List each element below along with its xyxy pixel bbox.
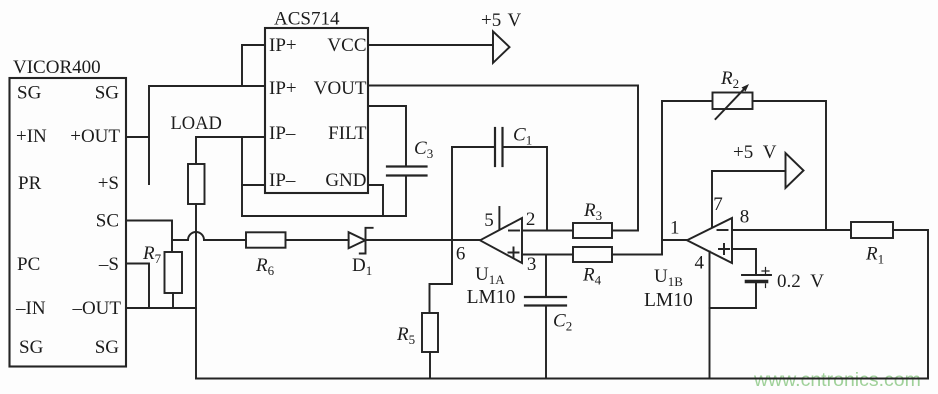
svg-text:SG: SG <box>95 82 120 103</box>
wire -OUT to ground drop <box>126 307 196 309</box>
resistor LOAD <box>188 164 205 204</box>
wire SC row with hop over LOAD wire <box>172 232 246 240</box>
wire IP+1 stub to IP+ net <box>242 45 265 86</box>
wire R4 right lead to U1B output node <box>612 254 662 256</box>
wire IP-4 stub <box>242 184 265 186</box>
R2 wiper arrow <box>716 87 747 119</box>
wire pin7 to +5V arrow <box>712 171 786 228</box>
svg-text:PC: PC <box>17 254 40 275</box>
svg-text:www.cntronics.com: www.cntronics.com <box>753 369 921 391</box>
svg-text:LOAD: LOAD <box>171 114 222 134</box>
resistor R4 <box>573 247 612 262</box>
svg-text:FILT: FILT <box>328 123 367 144</box>
svg-text:C2: C2 <box>553 311 572 334</box>
wire D1 to U1A output node <box>366 239 481 241</box>
svg-text:VOUT: VOUT <box>314 78 367 99</box>
svg-text:ACS714: ACS714 <box>274 9 340 30</box>
resistor R7 <box>165 252 183 293</box>
wire R2 right lead down to pin8 row <box>753 101 827 230</box>
svg-text:VICOR400: VICOR400 <box>13 57 101 78</box>
svg-text:SG: SG <box>95 337 120 358</box>
svg-text:4: 4 <box>695 253 705 274</box>
svg-text:C1: C1 <box>513 125 532 148</box>
wire R7 bottom lead <box>172 293 174 308</box>
module VICOR400 box <box>10 78 127 367</box>
wire IP-3 to LOAD top <box>196 137 265 164</box>
wire C2 bottom lead <box>545 306 547 379</box>
svg-text:1: 1 <box>670 217 680 238</box>
wire IP-/GND bottom tie <box>242 215 406 217</box>
svg-text:IP+: IP+ <box>269 35 297 56</box>
op-amp U1B <box>687 218 732 263</box>
capacitor C2 <box>525 297 566 306</box>
wire battery bottom loop to pin4 <box>710 283 757 308</box>
svg-text:7: 7 <box>713 194 723 215</box>
wire pin4 down to ground rail <box>709 252 711 379</box>
svg-text:SG: SG <box>17 82 42 103</box>
wire pin8 row to R1 <box>732 229 851 231</box>
svg-text:R4: R4 <box>582 265 602 288</box>
svg-text:SG: SG <box>19 337 44 358</box>
ground rail (bottom) <box>196 378 928 380</box>
svg-text:3: 3 <box>527 254 537 275</box>
svg-text:–IN: –IN <box>15 298 46 319</box>
wire FILT to C3 top <box>368 106 406 165</box>
wire LOAD bottom lead down to ground rail <box>195 204 197 379</box>
+5V power arrow (top) <box>493 31 510 63</box>
svg-text:LM10: LM10 <box>644 290 693 311</box>
wire R1 right lead down right edge <box>893 230 928 379</box>
wire R6 to D1 <box>286 239 349 241</box>
wire GND stub down <box>368 185 383 216</box>
wire C3 bottom lead <box>405 177 407 216</box>
svg-text:–OUT: –OUT <box>71 298 121 319</box>
svg-text:GND: GND <box>325 170 366 191</box>
pin 5 stub <box>498 207 500 230</box>
diode D1 (zener) <box>349 228 373 254</box>
resistor R1 <box>851 222 893 238</box>
op-amp U1B plus sign <box>719 244 729 254</box>
svg-text:+5 V: +5 V <box>733 142 777 163</box>
svg-text:–S: –S <box>98 254 119 275</box>
wire VCC to +5V arrow <box>368 44 493 46</box>
svg-text:2: 2 <box>526 209 536 230</box>
capacitor C1 <box>495 128 503 166</box>
resistor R5 <box>422 313 438 352</box>
svg-text:R1: R1 <box>865 244 884 267</box>
op-amp U1B minus sign <box>718 229 728 231</box>
svg-text:5: 5 <box>484 210 494 231</box>
wire SC to R7/R6 node <box>126 221 172 253</box>
wire +OUT stub <box>126 136 149 138</box>
op-amp U1A minus sign <box>509 230 519 232</box>
wire C1 right lead down to pin2 row <box>503 147 548 231</box>
svg-text:0.2 V: 0.2 V <box>777 271 824 292</box>
wire U1B + input to battery <box>732 249 756 275</box>
wire U1B output <box>662 239 687 241</box>
resistor R3 <box>573 223 612 238</box>
wire IP+2 to +OUT/+S vertical <box>149 86 265 184</box>
svg-text:R5: R5 <box>396 324 415 347</box>
svg-text:IP–: IP– <box>269 123 296 144</box>
wire R5 bottom lead <box>429 352 431 379</box>
battery 0.2 V <box>742 268 771 288</box>
svg-text:LM10: LM10 <box>467 287 516 308</box>
wire U1A output node vertical to C1 and down to R5 <box>430 147 453 313</box>
svg-text:+5 V: +5 V <box>481 10 522 31</box>
svg-text:IP+: IP+ <box>269 78 297 99</box>
svg-text:6: 6 <box>456 243 466 264</box>
svg-text:U1A: U1A <box>475 264 505 287</box>
op-amp U1A <box>480 218 522 263</box>
svg-text:U1B: U1B <box>654 266 683 289</box>
svg-text:D1: D1 <box>352 255 372 278</box>
+5V power arrow (right) <box>786 153 804 188</box>
wire pin3 row to R4 <box>522 254 573 256</box>
svg-text:R3: R3 <box>583 200 602 223</box>
wire -S down to -OUT <box>126 264 149 309</box>
wire U1B output node vertical (R2 left / pin1 / R4) <box>662 101 713 255</box>
wire VOUT long run and drop to R3 <box>368 86 638 231</box>
resistor R2 (adjustable) <box>713 93 753 110</box>
svg-text:R6: R6 <box>255 255 275 278</box>
svg-text:+IN: +IN <box>16 126 47 147</box>
resistor R6 <box>246 232 286 247</box>
wire C2 drop <box>545 255 547 297</box>
svg-text:VCC: VCC <box>327 35 366 56</box>
svg-text:+S: +S <box>98 173 119 194</box>
wire pin2 row to R3 <box>522 230 573 232</box>
svg-text:C3: C3 <box>414 138 433 161</box>
wire IP- tie vertical <box>241 137 243 216</box>
svg-text:R2: R2 <box>720 68 739 91</box>
capacitor C3 <box>387 167 427 176</box>
svg-text:IP–: IP– <box>269 170 296 191</box>
current sensor U? ACS714 box <box>265 28 368 193</box>
svg-text:PR: PR <box>18 173 42 194</box>
wire C1 left lead <box>452 146 495 148</box>
svg-text:+OUT: +OUT <box>70 126 120 147</box>
svg-text:8: 8 <box>740 207 750 228</box>
svg-text:SC: SC <box>96 210 119 231</box>
op-amp U1A plus sign <box>509 248 519 258</box>
